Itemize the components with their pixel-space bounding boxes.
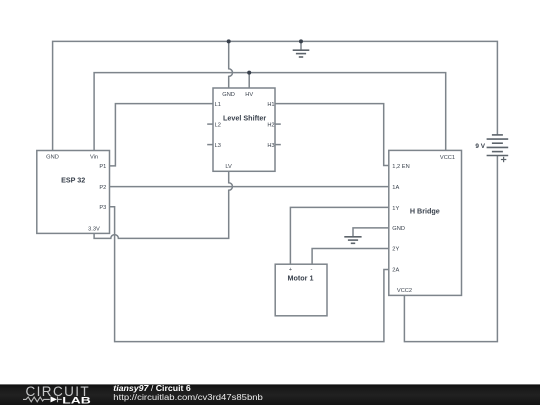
svg-text:L2: L2 bbox=[215, 122, 221, 128]
svg-text:http://circuitlab.com/cv3rd47s: http://circuitlab.com/cv3rd47s85bnb bbox=[113, 393, 263, 402]
svg-text:ESP 32: ESP 32 bbox=[61, 176, 85, 185]
svg-text:GND: GND bbox=[392, 226, 405, 232]
svg-text:2A: 2A bbox=[392, 268, 399, 274]
svg-text:Level Shifter: Level Shifter bbox=[223, 114, 266, 123]
svg-text:3.3V: 3.3V bbox=[88, 227, 100, 233]
svg-text:Vin: Vin bbox=[90, 154, 98, 160]
svg-text:VCC1: VCC1 bbox=[440, 155, 455, 161]
svg-text:L1: L1 bbox=[215, 102, 221, 108]
svg-text:tiansy97 / Circuit 6: tiansy97 / Circuit 6 bbox=[113, 384, 191, 393]
svg-text:H Bridge: H Bridge bbox=[410, 206, 440, 215]
svg-text:P1: P1 bbox=[99, 164, 106, 170]
svg-text:P3: P3 bbox=[99, 205, 106, 211]
svg-text:H2: H2 bbox=[267, 122, 274, 128]
svg-text:L3: L3 bbox=[215, 143, 221, 149]
svg-text:-: - bbox=[311, 267, 313, 273]
svg-text:9 V: 9 V bbox=[475, 143, 485, 150]
svg-text:LV: LV bbox=[225, 164, 232, 170]
svg-text:1Y: 1Y bbox=[392, 206, 399, 212]
svg-text:2Y: 2Y bbox=[392, 247, 399, 253]
svg-text:H3: H3 bbox=[267, 143, 274, 149]
svg-text:GND: GND bbox=[222, 92, 235, 98]
svg-text:GND: GND bbox=[46, 154, 59, 160]
svg-text:1,2 EN: 1,2 EN bbox=[392, 164, 409, 170]
svg-text:HV: HV bbox=[245, 92, 253, 98]
svg-text:LAB: LAB bbox=[62, 395, 91, 405]
svg-text:H1: H1 bbox=[267, 102, 274, 108]
svg-text:1A: 1A bbox=[392, 185, 399, 191]
svg-text:VCC2: VCC2 bbox=[397, 288, 412, 294]
svg-text:P2: P2 bbox=[99, 185, 106, 191]
svg-text:Motor 1: Motor 1 bbox=[288, 273, 314, 282]
